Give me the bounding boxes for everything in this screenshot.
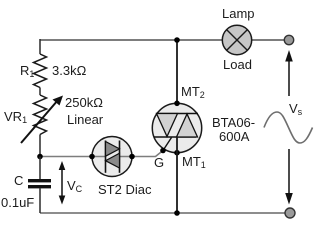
- potentiometer VR1: [4, 95, 104, 143]
- triac BTA06-600A body: [152, 84, 255, 170]
- annotation Vs arrow up: [285, 50, 293, 96]
- annotation Vs label: [289, 101, 303, 117]
- terminal top right: [284, 35, 293, 44]
- wire bottom rail: [40, 212, 285, 214]
- svg-text:ST2 Diac: ST2 Diac: [98, 182, 152, 197]
- svg-text:Lamp: Lamp: [222, 6, 255, 21]
- svg-text:G: G: [154, 155, 164, 170]
- svg-text:Linear: Linear: [67, 112, 104, 127]
- svg-text:0.1uF: 0.1uF: [1, 195, 34, 210]
- wire triac MT2 drop: [176, 40, 178, 114]
- svg-text:250kΩ: 250kΩ: [65, 95, 103, 110]
- wire junction to capacitor: [39, 157, 41, 180]
- resistor R1: [20, 54, 87, 88]
- lamp Load: [222, 6, 255, 72]
- node gate G: [154, 148, 166, 170]
- svg-text:600A: 600A: [219, 129, 250, 144]
- capacitor C: [1, 173, 51, 210]
- node diac left pin: [89, 154, 95, 160]
- wire mid (gate/capacitor node): [40, 151, 163, 157]
- node MT1 pin: [174, 150, 180, 156]
- wire top rail: [40, 39, 285, 41]
- terminal bottom right: [285, 208, 295, 218]
- svg-text:C: C: [14, 173, 23, 188]
- node MT2 pin: [174, 101, 180, 107]
- diac ST2 body: [92, 137, 152, 198]
- wire VR1 to junction: [39, 135, 41, 157]
- svg-text:Load: Load: [223, 57, 252, 72]
- node top rail / MT2 branch: [174, 37, 180, 43]
- wire between R1 and VR1: [39, 88, 41, 96]
- wire capacitor to bottom rail: [39, 188, 41, 213]
- node junction VR1/C/diac: [37, 154, 43, 160]
- wire triac MT1 drop: [176, 137, 178, 213]
- source sine wave: [264, 112, 313, 143]
- node bottom rail / MT1 branch: [174, 210, 180, 216]
- node diac right pin: [129, 154, 135, 160]
- svg-text:BTA06-: BTA06-: [212, 115, 255, 130]
- annotation Vc arrow: [59, 161, 83, 205]
- wire left rail (top corner down to R1): [39, 39, 41, 54]
- svg-text:3.3kΩ: 3.3kΩ: [52, 63, 87, 78]
- annotation Vs arrow down: [285, 149, 293, 205]
